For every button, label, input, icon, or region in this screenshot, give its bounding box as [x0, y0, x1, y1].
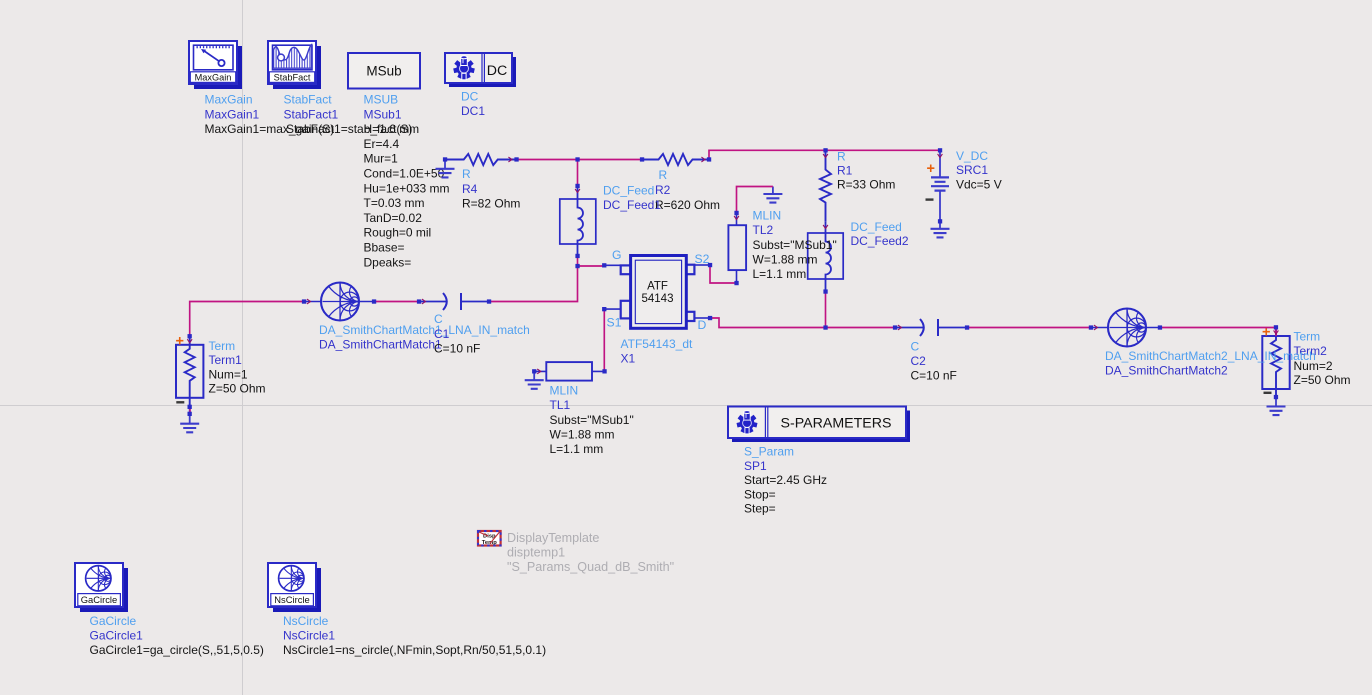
svg-text:MaxGain: MaxGain [205, 93, 253, 107]
svg-text:R: R [837, 149, 846, 163]
pin square X1 source2 [708, 263, 712, 267]
pin label S2 [695, 252, 710, 266]
label DC_Feed1 [603, 184, 661, 212]
wire DC_Feed1 bottom to gate node [577, 256, 579, 266]
svg-text:C: C [911, 340, 920, 354]
wire S2 pin to TL2 bottom [710, 265, 737, 283]
pin square DC_Feed1 pin2 [575, 254, 579, 258]
pin arrow R1 top [823, 154, 828, 158]
svg-text:TL1: TL1 [550, 398, 571, 412]
ground at TL1 left [525, 371, 544, 388]
pin square TL2 pin1 [734, 211, 738, 215]
wire S1 pin to TL1 right [603, 309, 605, 371]
svg-text:ATF54143_dt: ATF54143_dt [621, 337, 693, 351]
svg-text:MLIN: MLIN [753, 208, 782, 222]
pin square X1 gate [602, 263, 606, 267]
svg-text:+: + [927, 161, 935, 177]
svg-text:NsCircle: NsCircle [274, 594, 309, 605]
pin square X1 source1 [602, 307, 606, 311]
svg-text:"S_Params_Quad_dB_Smith": "S_Params_Quad_dB_Smith" [507, 560, 674, 574]
wire C1 to gate node [489, 266, 578, 302]
matching network DA_SmithChartMatch1 [304, 283, 374, 321]
svg-text:GaCircle: GaCircle [81, 594, 117, 605]
junction drain node [823, 325, 827, 329]
pin square SRC1 plus terminal [938, 148, 942, 152]
svg-text:G: G [612, 248, 621, 262]
label Term2 [1294, 330, 1351, 388]
pin arrow R2 pin2 [701, 157, 705, 162]
svg-text:Dpeaks=: Dpeaks= [364, 255, 412, 269]
DC simulation controller icon [445, 53, 516, 87]
svg-text:D: D [698, 318, 707, 332]
wire TL2 top to ground [737, 187, 773, 214]
svg-text:W=1.88 mm: W=1.88 mm [753, 253, 818, 267]
svg-text:Num=1: Num=1 [209, 367, 248, 381]
svg-text:Rough=0 mil: Rough=0 mil [364, 226, 432, 240]
pin square R2 pin2 [707, 157, 711, 161]
svg-text:C1: C1 [434, 327, 450, 341]
DC voltage source SRC1 [926, 150, 950, 221]
pin arrow C2 input [898, 325, 902, 330]
svg-text:Term1: Term1 [209, 353, 243, 367]
svg-text:L=1.1 mm: L=1.1 mm [550, 442, 604, 456]
resistor R1 [820, 150, 831, 222]
svg-text:MSUB: MSUB [364, 93, 399, 107]
capacitor C1 [419, 293, 489, 310]
label C2 [911, 340, 957, 383]
svg-text:54143: 54143 [642, 293, 674, 305]
pin arrow TL2 top [734, 216, 739, 220]
svg-text:S-PARAMETERS: S-PARAMETERS [781, 415, 892, 431]
pin arrow DC_Feed2 top [823, 225, 828, 229]
pin square TL2 pin2 [734, 281, 738, 285]
svg-text:GaCircle1=ga_circle(S,,51,5,0.: GaCircle1=ga_circle(S,,51,5,0.5) [90, 643, 264, 657]
svg-text:DC_Feed: DC_Feed [851, 220, 902, 234]
svg-text:TL2: TL2 [753, 223, 774, 237]
inductor DC_Feed1 [560, 186, 596, 256]
label disptemp1 [507, 531, 674, 574]
pin label S1 [607, 315, 622, 329]
pin square match1 pin2 [372, 299, 376, 303]
svg-text:SRC1: SRC1 [956, 163, 988, 177]
svg-text:StabFact1: StabFact1 [284, 107, 339, 121]
ground below SRC1 [931, 221, 950, 237]
pin arrow Term1 top [187, 339, 192, 343]
measurement icon StabFact [268, 41, 321, 89]
pin square DC_Feed1 pin1 [575, 184, 579, 188]
capacitor C2 [895, 319, 967, 336]
junction gate node [575, 264, 579, 268]
svg-text:T=0.03 mm: T=0.03 mm [364, 196, 425, 210]
svg-text:Mur=1: Mur=1 [364, 152, 399, 166]
svg-text:X1: X1 [621, 352, 636, 366]
page horizontal axis line [0, 405, 1372, 407]
svg-text:DA_SmithChartMatch2_LNA_IN_mat: DA_SmithChartMatch2_LNA_IN_match [1105, 349, 1316, 363]
svg-text:L=1.1 mm: L=1.1 mm [753, 267, 807, 281]
wire D pin to C2 [710, 318, 895, 328]
pin square SRC1 minus terminal [938, 219, 942, 223]
pin arrow match2 input [1094, 325, 1098, 330]
svg-text:Term: Term [209, 339, 236, 353]
pin square DC_Feed2 pin2 [823, 289, 827, 293]
svg-text:Er=4.4: Er=4.4 [364, 137, 400, 151]
junction bias node at DC_Feed1 top [575, 157, 579, 161]
microstrip line TL1 [534, 362, 604, 381]
svg-text:S1: S1 [607, 315, 622, 329]
svg-text:C: C [434, 312, 443, 326]
svg-text:Stop=: Stop= [744, 487, 776, 501]
label GaCircle1 [90, 614, 264, 657]
svg-text:Hu=1e+033 mm: Hu=1e+033 mm [364, 181, 450, 195]
port Term2 [1262, 324, 1290, 397]
svg-text:R=620 Ohm: R=620 Ohm [655, 198, 720, 212]
svg-text:StabFact: StabFact [274, 72, 311, 82]
label SRC1 [956, 149, 1002, 192]
port Term1 [176, 333, 204, 406]
wire R2 to V_DC rail [709, 150, 940, 159]
pin square Term1 top [188, 334, 192, 338]
svg-text:DA_SmithChartMatch1: DA_SmithChartMatch1 [319, 337, 442, 351]
pin square R4 pin2 [514, 157, 518, 161]
svg-text:StabFact: StabFact [284, 93, 333, 107]
svg-text:R=33 Ohm: R=33 Ohm [837, 178, 895, 192]
svg-text:DC: DC [487, 63, 508, 79]
label NsCircle1 [283, 614, 546, 657]
svg-text:R2: R2 [655, 183, 671, 197]
svg-text:V_DC: V_DC [956, 149, 988, 163]
display template icon disptemp1 [478, 531, 501, 546]
wire C2 to SmithChartMatch2 [967, 327, 1091, 329]
label MaxGain text [205, 93, 335, 137]
wire SmithChartMatch1 to C1 [374, 301, 419, 303]
label R2 [655, 168, 720, 212]
svg-text:S2: S2 [695, 252, 710, 266]
svg-text:Start=2.45 GHz: Start=2.45 GHz [744, 473, 827, 487]
svg-text:DC1: DC1 [461, 104, 485, 118]
svg-text:NsCircle1=ns_circle(,NFmin,Sop: NsCircle1=ns_circle(,NFmin,Sopt,Rn/50,51… [283, 643, 546, 657]
matching network DA_SmithChartMatch2 [1091, 309, 1160, 347]
pin arrow Term2 top [1274, 330, 1279, 334]
pin square TL1 pin1 [532, 369, 536, 373]
svg-text:MSub1: MSub1 [364, 107, 402, 121]
svg-text:TanD=0.02: TanD=0.02 [364, 211, 423, 225]
substrate definition box MSub [348, 53, 420, 89]
svg-text:Subst="MSub1": Subst="MSub1" [753, 238, 837, 252]
pin square TL1 pin2 [602, 369, 606, 373]
label TL2 [753, 208, 837, 281]
pin square match2 pin2 [1158, 325, 1162, 329]
svg-text:GaCircle1: GaCircle1 [90, 628, 144, 642]
label DA_SmithChartMatch1 [319, 323, 530, 351]
pin label D [698, 318, 707, 332]
pin arrow R4 pin2 [508, 157, 512, 162]
pin arrow DC_Feed1 top [575, 189, 580, 193]
svg-text:DC: DC [461, 90, 479, 104]
svg-text:R: R [659, 168, 668, 182]
pin square C2 pin2 [965, 325, 969, 329]
label X1 [621, 337, 693, 366]
svg-text:disptemp1: disptemp1 [507, 546, 565, 560]
pin square R4 ground pin [443, 157, 447, 161]
svg-text:DA_SmithChartMatch1_LNA_IN_mat: DA_SmithChartMatch1_LNA_IN_match [319, 323, 530, 337]
label R1 [837, 149, 895, 191]
pin square ground at Term1 [188, 412, 192, 416]
svg-text:Step=: Step= [744, 502, 776, 516]
svg-text:R: R [462, 167, 471, 181]
svg-text:MaxGain1: MaxGain1 [205, 107, 260, 121]
svg-text:NsCircle1: NsCircle1 [283, 628, 335, 642]
pin square C1 pin2 [487, 299, 491, 303]
svg-text:Z=50 Ohm: Z=50 Ohm [209, 382, 266, 396]
svg-text:MLIN: MLIN [550, 383, 579, 397]
svg-text:C=10 nF: C=10 nF [911, 369, 957, 383]
pin square C1 pin1 [417, 299, 421, 303]
wire DC_Feed1 top to bias rail [577, 160, 579, 187]
svg-text:R4: R4 [462, 182, 478, 196]
svg-text:Temp: Temp [482, 540, 497, 546]
svg-text:DA_SmithChartMatch2: DA_SmithChartMatch2 [1105, 363, 1228, 377]
pin arrow TL1 input [537, 369, 541, 374]
pin square R2 pin1 [640, 157, 644, 161]
S-parameters simulation controller SP1 [728, 407, 910, 443]
junction R1 top on rail [823, 148, 827, 152]
svg-text:DisplayTemplate: DisplayTemplate [507, 531, 599, 545]
page vertical axis line [242, 0, 244, 695]
svg-text:DC_Feed1: DC_Feed1 [603, 198, 661, 212]
label DC text [461, 90, 485, 119]
wire SmithChartMatch2 to Term2 [1160, 328, 1276, 337]
pin arrow match1 input [307, 299, 311, 304]
svg-text:DC_Feed2: DC_Feed2 [851, 234, 909, 248]
wire DC_Feed2 bottom to drain node [825, 292, 827, 328]
microstrip line TL2 [728, 213, 746, 283]
pin square Term2 bottom [1274, 395, 1278, 399]
label TL1 [550, 383, 634, 456]
pin arrow C1 input [422, 299, 426, 304]
wire Term1 to SmithChartMatch1 input [190, 302, 304, 337]
inductor DC_Feed2 [808, 222, 844, 292]
svg-text:S_Param: S_Param [744, 445, 794, 459]
wire Term1 bottom to ground [189, 407, 191, 414]
label DA_SmithChartMatch2 [1105, 349, 1316, 378]
svg-text:C=10 nF: C=10 nF [434, 342, 480, 356]
label C1 [434, 312, 480, 356]
ground at R4 left [436, 169, 455, 178]
svg-text:MSub: MSub [366, 64, 401, 79]
svg-text:Z=50 Ohm: Z=50 Ohm [1294, 373, 1351, 387]
svg-text:H=1.6 mm: H=1.6 mm [364, 122, 420, 136]
measurement icon NsCircle [268, 563, 321, 612]
label MSUB parameters [364, 93, 450, 270]
wire gate node to G pin [578, 265, 605, 267]
pin square match2 pin1 [1089, 325, 1093, 329]
label R4 [462, 167, 520, 211]
svg-text:DC_Feed: DC_Feed [603, 184, 654, 198]
svg-text:W=1.88 mm: W=1.88 mm [550, 428, 615, 442]
pin square match1 pin1 [302, 299, 306, 303]
pin label G [612, 248, 621, 262]
resistor R2 [642, 154, 709, 165]
svg-text:GaCircle: GaCircle [90, 614, 137, 628]
svg-text:MaxGain: MaxGain [195, 72, 232, 82]
label Term1 [209, 339, 266, 396]
svg-text:Subst="MSub1": Subst="MSub1" [550, 413, 634, 427]
svg-text:C2: C2 [911, 354, 927, 368]
svg-text:R=82 Ohm: R=82 Ohm [462, 197, 520, 211]
ground above TL2 [763, 187, 782, 203]
svg-text:+: + [176, 333, 184, 349]
label DC_Feed2 [851, 220, 909, 248]
ground below Term1 [180, 407, 199, 433]
pin square Term2 top [1274, 325, 1278, 329]
measurement icon MaxGain [189, 41, 242, 89]
pin square X1 drain [708, 316, 712, 320]
svg-text:R1: R1 [837, 164, 853, 178]
svg-text:Cond=1.0E+50: Cond=1.0E+50 [364, 167, 445, 181]
label SP1 [744, 445, 827, 516]
measurement icon GaCircle [75, 563, 128, 612]
resistor R4 [445, 154, 517, 169]
ground below Term2 [1267, 397, 1286, 415]
svg-text:Vdc=5 V: Vdc=5 V [956, 178, 1002, 192]
svg-text:NsCircle: NsCircle [283, 614, 329, 628]
label StabFact text [284, 93, 413, 137]
svg-text:SP1: SP1 [744, 459, 767, 473]
pin arrow SRC1 top [938, 154, 943, 158]
svg-text:Bbase=: Bbase= [364, 241, 405, 255]
svg-text:Term: Term [1294, 330, 1321, 344]
transistor X1 ATF54143 [604, 256, 710, 329]
pin square Term1 bottom [188, 405, 192, 409]
svg-text:ATF: ATF [647, 281, 668, 293]
wire R4 to R2 [517, 159, 643, 161]
pin square C2 pin1 [893, 325, 897, 329]
